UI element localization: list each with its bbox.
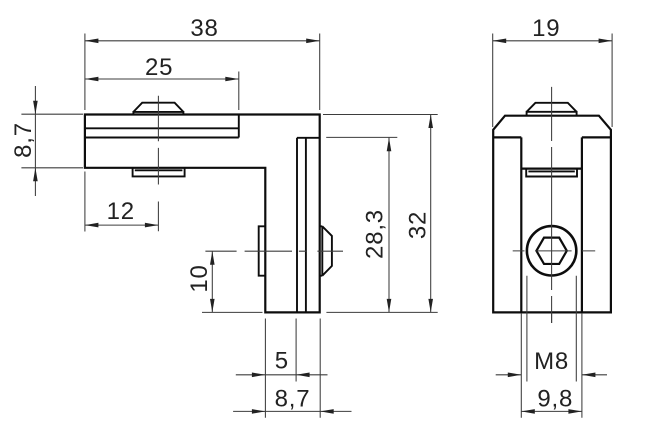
svg-text:38: 38	[190, 15, 218, 42]
svg-text:M8: M8	[534, 348, 569, 375]
svg-text:10: 10	[186, 264, 213, 292]
svg-text:5: 5	[275, 348, 289, 375]
svg-text:8,7: 8,7	[275, 385, 311, 412]
svg-text:19: 19	[532, 15, 560, 42]
svg-text:9,8: 9,8	[537, 385, 573, 412]
svg-text:25: 25	[145, 54, 173, 81]
svg-text:8,7: 8,7	[10, 122, 37, 158]
svg-text:12: 12	[107, 198, 135, 225]
svg-text:28,3: 28,3	[362, 209, 389, 259]
svg-text:32: 32	[405, 211, 432, 239]
